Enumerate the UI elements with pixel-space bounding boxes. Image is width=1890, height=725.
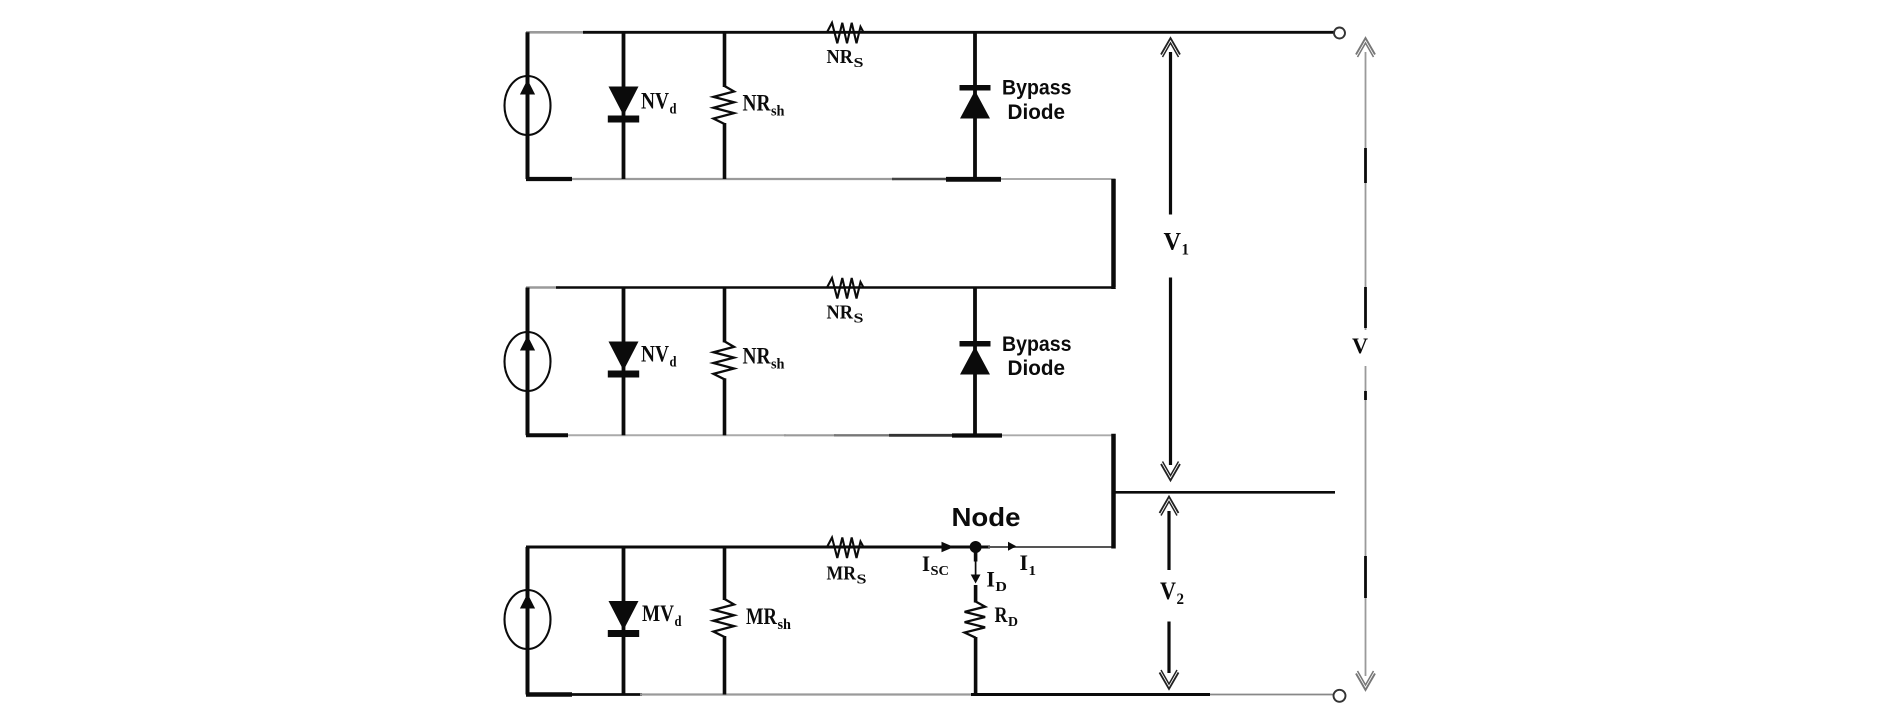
wire top rail (block1 top, to + output terminal): [526, 31, 1335, 34]
wire series connector block2-block3: [1111, 434, 1116, 549]
label ID: [986, 567, 1007, 596]
current arrow ID (down from node): [971, 552, 981, 584]
svg-text:V: V: [1164, 229, 1182, 256]
svg-text:SC: SC: [931, 564, 950, 579]
label NRs (block1): [827, 46, 864, 71]
svg-text:2: 2: [1177, 591, 1185, 608]
resistor NRs (block2, series): [827, 278, 864, 299]
svg-text:d: d: [675, 614, 683, 630]
diode NVd (block1): [608, 32, 639, 179]
svg-text:NR: NR: [827, 302, 854, 324]
svg-text:S: S: [854, 56, 864, 71]
svg-text:I: I: [986, 567, 995, 592]
svg-text:S: S: [857, 573, 867, 588]
label RD: [995, 602, 1019, 630]
svg-text:sh: sh: [778, 617, 792, 633]
svg-text:NV: NV: [641, 89, 669, 114]
wire block3 top rail: [526, 546, 1116, 549]
label MRsh (block3): [746, 604, 792, 633]
svg-text:R: R: [995, 602, 1009, 627]
label MRs (block3): [827, 563, 867, 588]
svg-text:MR: MR: [746, 604, 777, 629]
resistor MRsh (block3): [714, 547, 735, 695]
svg-text:D: D: [995, 580, 1007, 595]
label MVd (block3): [642, 601, 682, 630]
svg-text:NR: NR: [743, 344, 771, 369]
label NRs (block2): [827, 302, 864, 327]
svg-text:Node: Node: [952, 502, 1021, 532]
output terminal bottom (open circle): [1334, 690, 1346, 702]
bypass diode (block1): [960, 32, 991, 179]
node junction dot: [970, 541, 982, 553]
V2 arrow (double headed): [1160, 497, 1179, 690]
svg-text:I: I: [922, 551, 930, 576]
label I1 (current): [1020, 550, 1037, 579]
wire block2 top rail: [526, 286, 1116, 289]
wire series connector block1-block2: [1111, 179, 1116, 289]
label V (total voltage): [1352, 333, 1368, 358]
svg-text:Bypass: Bypass: [1002, 77, 1072, 100]
svg-text:d: d: [670, 355, 678, 371]
svg-text:sh: sh: [771, 104, 785, 120]
label Node: [952, 502, 1021, 532]
V1 arrow (double headed): [1161, 38, 1180, 481]
svg-text:d: d: [670, 102, 678, 118]
current source I3 (block3): [505, 547, 551, 695]
resistor NRsh (block2): [714, 288, 735, 436]
svg-text:1: 1: [1029, 564, 1037, 579]
label Isc: [922, 551, 949, 579]
current arrow I1 (out of node): [1008, 542, 1016, 551]
svg-text:sh: sh: [771, 357, 785, 373]
svg-text:Bypass: Bypass: [1002, 333, 1072, 356]
current arrow Isc (into node): [942, 542, 954, 552]
svg-text:NR: NR: [827, 46, 854, 68]
svg-text:V: V: [1160, 578, 1176, 605]
diode MVd (block3): [608, 547, 639, 695]
svg-text:D: D: [1008, 615, 1018, 630]
svg-text:V: V: [1352, 333, 1368, 358]
label NRsh (block2): [743, 344, 786, 373]
svg-text:I: I: [1020, 550, 1029, 575]
current source I2 (block2): [505, 288, 551, 436]
label V2: [1160, 578, 1184, 608]
output terminal top (open circle): [1334, 28, 1345, 39]
svg-text:MV: MV: [642, 601, 674, 626]
label V1: [1164, 229, 1190, 259]
svg-text:MR: MR: [827, 563, 857, 585]
svg-text:1: 1: [1182, 242, 1190, 259]
svg-text:NV: NV: [641, 342, 669, 367]
wire mid tap line (V1/V2 boundary): [1112, 491, 1336, 494]
svg-text:Diode: Diode: [1008, 357, 1066, 380]
resistor NRs (block1, series): [827, 23, 864, 44]
label NVd (block1): [641, 89, 677, 118]
wire block2 bottom rail: [526, 434, 1116, 436]
diode NVd (block2): [608, 288, 639, 436]
label Bypass Diode (block1): [1002, 77, 1072, 125]
svg-text:Diode: Diode: [1008, 101, 1066, 124]
wire block3 bottom rail (to - output terminal): [526, 693, 1335, 696]
resistor RD: [965, 585, 986, 695]
svg-text:NR: NR: [743, 91, 771, 116]
label NRsh (block1): [743, 91, 786, 120]
current source I1 (block1): [505, 32, 551, 179]
bypass diode (block2): [960, 288, 991, 436]
wire block1 bottom rail: [526, 178, 1116, 181]
label Bypass Diode (block2): [1002, 333, 1072, 380]
resistor NRsh (block1): [714, 32, 735, 179]
V arrow (total voltage, double headed): [1356, 38, 1375, 690]
resistor MRs (block3, series): [827, 538, 864, 559]
label NVd (block2): [641, 342, 677, 371]
svg-text:S: S: [854, 312, 864, 327]
